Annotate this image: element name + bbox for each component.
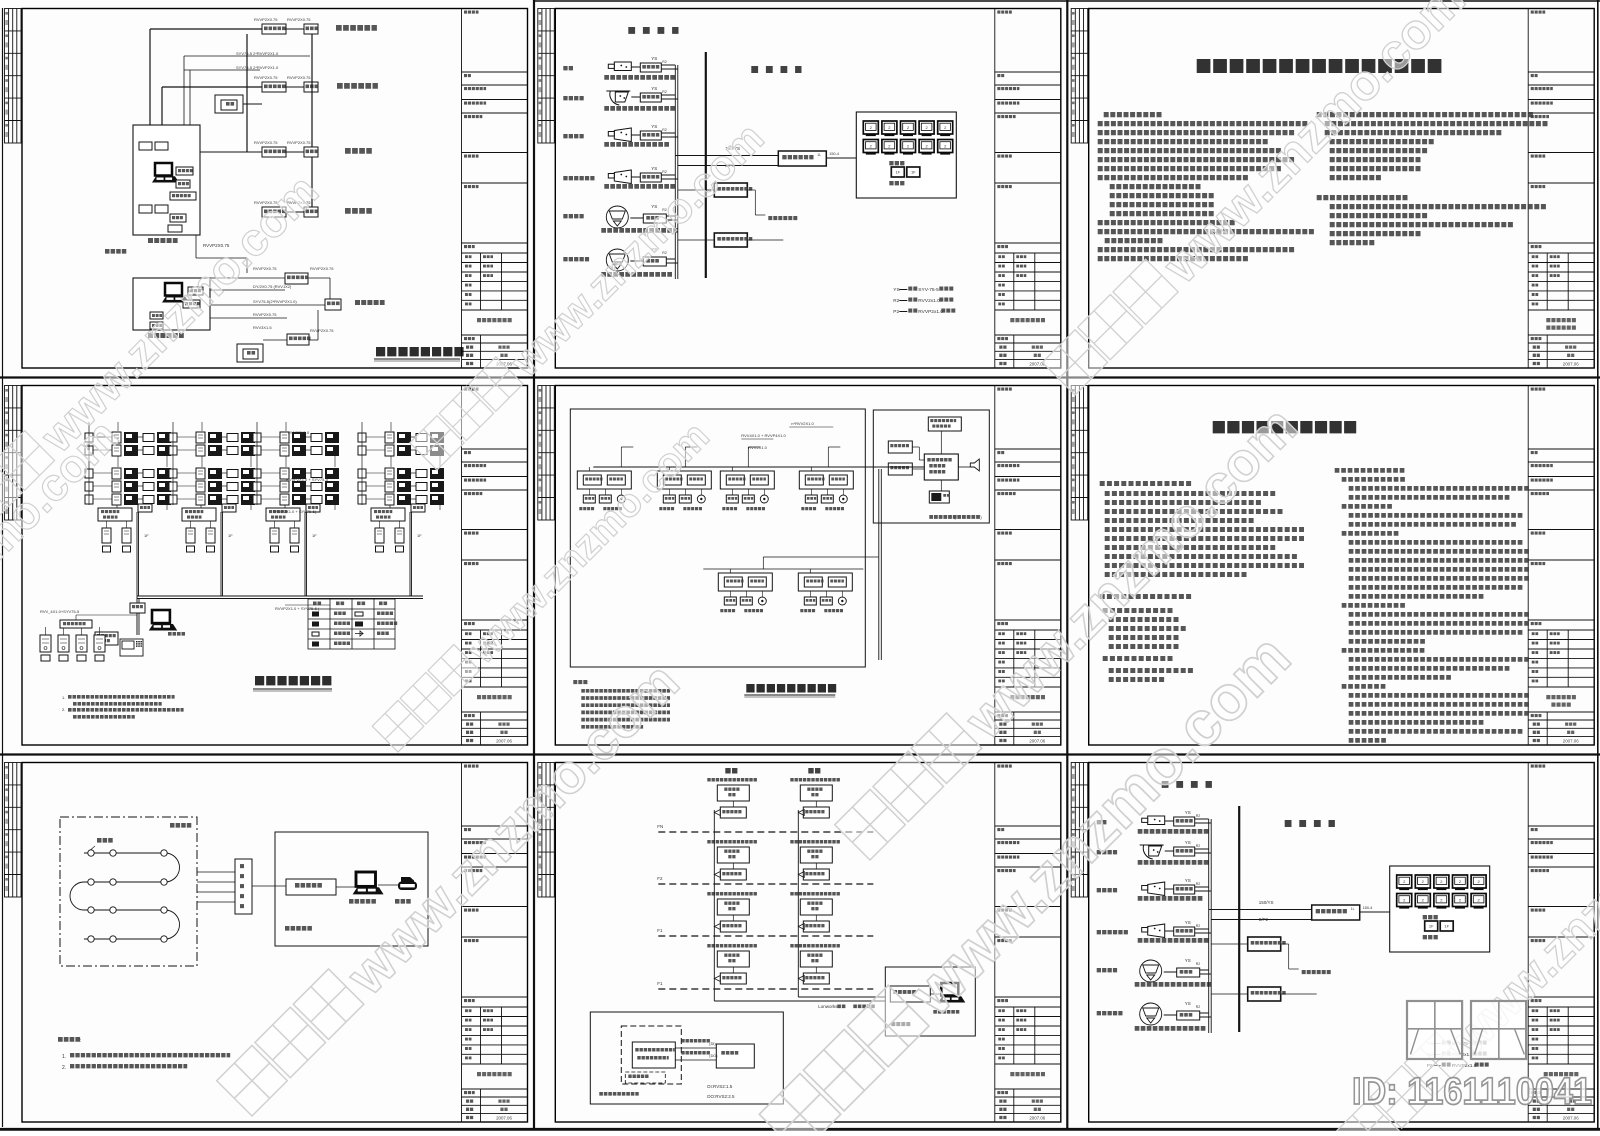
title block	[462, 386, 528, 746]
riser down from control room	[878, 469, 880, 660]
24V power supply	[714, 233, 747, 247]
alarm detector group 4	[799, 471, 853, 489]
svg-text:2007.06: 2007.06	[496, 1116, 512, 1121]
entry controller pair row C	[262, 147, 286, 157]
title block labels	[464, 389, 512, 743]
svg-text:R2: R2	[662, 90, 667, 94]
svg-text:1F: 1F	[144, 533, 149, 538]
file grid strip	[5, 763, 22, 898]
file grid strip	[538, 9, 555, 144]
camera group 2	[563, 96, 583, 100]
svg-text::: :	[80, 1038, 81, 1044]
svg-text:150-4: 150-4	[829, 152, 839, 156]
file grid strip	[538, 763, 555, 898]
svg-text:1.: 1.	[62, 1054, 66, 1060]
svg-text:DY/2X0.75 (RVV1X2): DY/2X0.75 (RVV1X2)	[253, 284, 292, 289]
file grid strip	[5, 386, 22, 521]
svg-text:2007.06: 2007.06	[1563, 1116, 1579, 1121]
bus wires	[1208, 819, 1210, 1033]
svg-text:F1: F1	[657, 928, 663, 933]
camera group 2	[1097, 850, 1117, 854]
svg-text:RVVP2X0.75: RVVP2X0.75	[287, 140, 311, 145]
title block labels	[464, 766, 512, 1121]
booth computer	[152, 163, 179, 183]
bus wires	[674, 65, 676, 279]
svg-text:Lonworks: Lonworks	[818, 1004, 838, 1009]
alarm detector group 3	[720, 471, 774, 489]
svg-text:R2: R2	[1196, 962, 1201, 966]
camera group 6	[563, 257, 589, 261]
title block	[462, 9, 528, 369]
svg-text:R2: R2	[1196, 882, 1201, 886]
management center cluster	[130, 603, 145, 613]
riser buses	[713, 810, 715, 1001]
svg-text:1.: 1.	[62, 695, 65, 700]
monitoring room	[275, 832, 428, 946]
svg-text:YS: YS	[651, 56, 657, 61]
ticket box top	[215, 95, 243, 113]
patrol route dash-dot rect	[60, 817, 197, 966]
main trunk	[137, 595, 423, 597]
svg-text:2007.06: 2007.06	[1029, 739, 1045, 744]
svg-text:YS: YS	[1185, 810, 1191, 815]
distributor group 4	[411, 504, 425, 512]
svg-text:1F: 1F	[911, 170, 916, 175]
znzmo logo	[1407, 1001, 1462, 1059]
svg-text:R2: R2	[1196, 1005, 1201, 1009]
svg-text:2.: 2.	[62, 1065, 66, 1071]
camera group 3	[563, 134, 583, 138]
svg-text:RVV2x1.0: RVV2x1.0	[918, 298, 940, 304]
svg-text:P2: P2	[893, 309, 899, 315]
design notes	[58, 1037, 80, 1042]
svg-text:RVV3X1.5: RVV3X1.5	[253, 325, 272, 330]
svg-text:F2: F2	[657, 876, 663, 881]
24V power supply	[1248, 987, 1281, 1001]
svg-text:F1: F1	[657, 981, 663, 986]
sheet inner frame	[22, 386, 528, 746]
svg-text:YS: YS	[651, 166, 657, 171]
distributor group 1	[138, 504, 152, 512]
matrix switcher	[1312, 905, 1360, 920]
dividing line	[1238, 806, 1240, 1032]
lower right cluster	[285, 273, 308, 284]
computer	[353, 872, 384, 894]
svg-text:YS: YS	[1185, 878, 1191, 883]
title block	[462, 763, 528, 1123]
floor divider F1	[658, 988, 873, 990]
svg-text:R2: R2	[662, 128, 667, 132]
title parking system	[376, 347, 464, 356]
sheet inner frame	[1089, 386, 1595, 746]
svg-text:RVV2X1.0: RVV2X1.0	[748, 445, 767, 450]
exit controller low	[287, 334, 309, 345]
title block labels	[1531, 766, 1579, 1121]
entry controller pair row D	[262, 207, 286, 217]
svg-text:DI:RVS2:1.5: DI:RVS2:1.5	[707, 1084, 732, 1089]
file grid strip	[5, 9, 22, 144]
svg-text:RVVP2X0.75: RVVP2X0.75	[310, 266, 334, 271]
monitoring center	[885, 967, 975, 1036]
svg-text:1F: 1F	[1429, 924, 1434, 929]
south tower label	[808, 768, 820, 774]
sheet inner frame	[1089, 763, 1595, 1123]
svg-text:YS: YS	[1185, 1001, 1191, 1006]
distributor group 2	[222, 504, 236, 512]
svg-text:RVVP2X1.0 + SYV75-5 (: RVVP2X1.0 + SYV75-5 (	[275, 606, 320, 611]
file grid strip	[1071, 9, 1088, 144]
title block	[995, 763, 1061, 1123]
distributor group 3	[306, 504, 320, 512]
alarm detector group low 2	[798, 573, 852, 591]
file grid strip	[538, 386, 555, 521]
intercom tower group 3	[280, 432, 289, 443]
svg-text:150-4: 150-4	[1363, 906, 1373, 910]
document title	[1197, 59, 1442, 73]
collector wires	[197, 871, 235, 873]
watermark instances	[217, 650, 691, 1124]
svg-text:RVVP2X0.75: RVVP2X0.75	[254, 17, 278, 22]
door stations	[40, 635, 51, 652]
svg-text:RVVP2X1.0 + SYV75-5: RVVP2X1.0 + SYV75-5	[286, 477, 329, 482]
front-end section label	[628, 27, 678, 34]
detail box	[590, 1012, 783, 1104]
svg-text:RVV4X1.0 + RVVP4X1.0: RVV4X1.0 + RVVP4X1.0	[741, 433, 786, 438]
svg-text:1F: 1F	[417, 533, 422, 538]
svg-text:(DI): (DI)	[709, 1042, 716, 1046]
center section label	[751, 66, 801, 73]
intercom tower group 1	[112, 432, 121, 443]
svg-text:ID: 1161110041: ID: 1161110041	[1352, 1071, 1592, 1113]
monitor wall room	[856, 112, 956, 198]
svg-text:2.: 2.	[62, 707, 65, 712]
svg-text:SYV-75-5: SYV-75-5	[918, 287, 939, 293]
left column text	[1104, 112, 1162, 117]
svg-text:RVVP2x1.0: RVVP2x1.0	[918, 309, 943, 315]
north tower label	[725, 768, 737, 774]
ticket box low	[237, 344, 263, 362]
svg-text:SYV75-5(2*RVVP2X1.0): SYV75-5(2*RVVP2X1.0)	[253, 299, 297, 304]
title block labels	[464, 12, 512, 367]
svg-text:8/P2: 8/P2	[1259, 917, 1269, 922]
intercom tower group 2	[196, 432, 205, 443]
svg-text::: :	[587, 680, 588, 685]
left column	[1100, 481, 1191, 486]
front-end section label	[1162, 781, 1212, 788]
camera group 5	[563, 214, 583, 218]
control room rect	[873, 410, 989, 523]
floor F1 modules	[707, 892, 757, 896]
svg-text:2007.06: 2007.06	[1563, 362, 1579, 367]
sheet inner frame	[22, 9, 528, 369]
title block	[995, 9, 1061, 369]
svg-text:R2: R2	[662, 170, 667, 174]
svg-text:(DO): (DO)	[709, 1054, 718, 1058]
camera group 1	[1097, 820, 1107, 824]
svg-text:1F: 1F	[1444, 924, 1449, 929]
file grid strip	[1071, 763, 1088, 898]
svg-text:2007.06: 2007.06	[1563, 739, 1579, 744]
svg-text:SYV75-5 2*RVVP2X1.0: SYV75-5 2*RVVP2X1.0	[236, 65, 279, 70]
title block	[1528, 9, 1594, 369]
floor FN modules	[707, 778, 757, 782]
title block labels	[997, 12, 1045, 367]
sheet inner frame	[555, 763, 1061, 1123]
unit junction box group 1	[98, 508, 132, 521]
notes	[573, 680, 587, 684]
svg-text:RVVP2X0.75: RVVP2X0.75	[254, 140, 278, 145]
svg-text:YS: YS	[1185, 840, 1191, 845]
svg-text:FN: FN	[657, 824, 663, 829]
top bus	[593, 466, 878, 468]
unit junction box group 4	[371, 508, 405, 521]
sheet inner frame	[22, 763, 528, 1123]
svg-text:RVVP2X1.0: RVVP2X1.0	[288, 430, 310, 435]
legend table	[308, 599, 395, 649]
center section label	[1285, 820, 1335, 827]
serpentine route	[70, 853, 180, 939]
sheet inner frame	[555, 9, 1061, 369]
middle wire	[763, 556, 878, 558]
document title	[1213, 421, 1357, 433]
wires top section	[150, 28, 262, 30]
alarm detector group 1	[577, 471, 631, 489]
outer zone rect	[570, 409, 865, 667]
monitor wall room	[1390, 866, 1490, 952]
title block labels	[997, 389, 1045, 743]
camera group 3	[1097, 888, 1117, 892]
svg-text:RVVP2X0.75: RVVP2X0.75	[287, 75, 311, 80]
svg-text:R2: R2	[1196, 924, 1201, 928]
svg-text:DO:RVS2:2.5: DO:RVS2:2.5	[707, 1094, 735, 1099]
svg-text:YS: YS	[1185, 920, 1191, 925]
svg-text:1F: 1F	[895, 170, 900, 175]
title block	[1528, 763, 1594, 1123]
svg-text:RVVP2X0.75: RVVP2X0.75	[253, 312, 277, 317]
svg-text:150/YS: 150/YS	[1259, 900, 1274, 905]
title block labels	[1531, 12, 1579, 367]
camera group 1	[563, 66, 573, 70]
camera group 5	[1097, 968, 1117, 972]
svg-text:YS: YS	[893, 287, 899, 293]
right column	[1335, 468, 1405, 473]
floor divider F1	[658, 935, 873, 937]
svg-text:1F: 1F	[228, 533, 233, 538]
sheet inner frame	[555, 386, 1061, 746]
dividing line	[705, 52, 707, 278]
intercom tower group 4	[385, 432, 394, 443]
svg-text:RVVP2X0.75: RVVP2X0.75	[310, 328, 334, 333]
entry controller pair row B	[262, 82, 286, 92]
svg-text:RVVP2X0.75: RVVP2X0.75	[254, 75, 278, 80]
12V power supply	[714, 183, 747, 197]
matrix switcher	[778, 151, 826, 166]
floor F1 modules	[707, 944, 757, 948]
svg-text:R2: R2	[1196, 844, 1201, 848]
svg-text:R2: R2	[662, 60, 667, 64]
title block labels	[997, 766, 1045, 1121]
camera group 6	[1097, 1011, 1123, 1015]
svg-text:RVV_4X1.0+SYV75-5: RVV_4X1.0+SYV75-5	[40, 609, 80, 614]
title perimeter	[746, 684, 836, 693]
title block	[1528, 386, 1594, 746]
patrol points	[88, 850, 94, 856]
svg-text:1F: 1F	[312, 533, 317, 538]
camera group 4	[563, 176, 594, 180]
unit junction box group 3	[266, 508, 300, 521]
alarm detector group low 1	[718, 573, 772, 591]
title block	[995, 386, 1061, 746]
sheet inner frame	[1089, 9, 1595, 369]
file grid strip	[1071, 386, 1088, 521]
svg-text:2007.06: 2007.06	[1029, 1116, 1045, 1121]
svg-text:YS: YS	[651, 124, 657, 129]
camera group 4	[1097, 930, 1128, 934]
data transmitter	[286, 879, 336, 895]
floor F2 modules	[707, 840, 757, 844]
floor divider F2	[658, 883, 873, 885]
management office room	[133, 278, 210, 330]
alarm detector group 2	[657, 471, 711, 489]
svg-text:RVVP2X0.75: RVVP2X0.75	[287, 17, 311, 22]
entry controller pair row A	[262, 24, 286, 34]
svg-text:RVVP2X1.0 + SYV75-5(: RVVP2X1.0 + SYV75-5(	[273, 509, 317, 514]
toll booth room	[133, 125, 200, 235]
svg-text:1L: 1L	[1351, 907, 1355, 911]
12V power supply	[1248, 937, 1281, 951]
floor divider FN	[658, 831, 873, 833]
right column text	[1317, 112, 1533, 117]
svg-text:1L: 1L	[817, 153, 821, 157]
title intercom	[255, 676, 331, 685]
printer	[398, 877, 417, 890]
svg-text:SYV75-5 2*RVVP2X1.0: SYV75-5 2*RVVP2X1.0	[236, 51, 279, 56]
fiber label	[105, 249, 126, 254]
svg-text:2007.06: 2007.06	[496, 739, 512, 744]
svg-text:R2: R2	[893, 298, 899, 304]
svg-text:n*RVV2X1.0: n*RVV2X1.0	[791, 421, 814, 426]
svg-text:YS: YS	[1185, 958, 1191, 963]
patrol point label	[97, 838, 113, 843]
svg-text:R2: R2	[1196, 814, 1201, 818]
unit junction box group 2	[182, 508, 216, 521]
data collector	[235, 859, 252, 914]
svg-text:YS: YS	[651, 86, 657, 91]
title block labels	[1531, 389, 1579, 743]
